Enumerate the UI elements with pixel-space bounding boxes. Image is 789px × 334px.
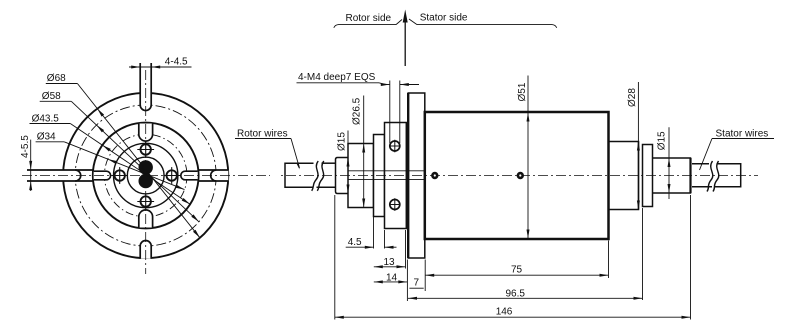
svg-text:Ø34: Ø34 (37, 132, 56, 143)
svg-text:Stator side: Stator side (420, 13, 468, 24)
rotor hub D26.5 (348, 144, 374, 208)
slot 5.5 right (211, 170, 229, 181)
stator shaft D15 (653, 158, 691, 193)
svg-text:7: 7 (414, 278, 420, 289)
centerline vertical (left view) (145, 70, 147, 274)
extension lines bottom (373, 209, 375, 249)
svg-text:Rotor side: Rotor side (346, 13, 392, 24)
svg-text:4-5.5: 4-5.5 (20, 135, 31, 158)
svg-text:Ø58: Ø58 (42, 91, 61, 102)
M4 hole extension lines (389, 81, 391, 144)
arrow up between sides (404, 20, 406, 66)
plate notch top (139, 124, 153, 142)
svg-text:Ø68: Ø68 (47, 73, 66, 84)
svg-text:4-M4 deep7 EQS: 4-M4 deep7 EQS (298, 72, 376, 83)
flange D68 side (408, 93, 425, 258)
svg-text:75: 75 (511, 265, 523, 276)
screw top (141, 144, 151, 154)
stator wire (692, 163, 709, 165)
slot 4.5 top (open at flange edge) (140, 63, 151, 111)
svg-text:Ø26.5: Ø26.5 (352, 97, 363, 125)
wire break left (312, 161, 319, 191)
circle hub OD (26.5) (114, 143, 178, 207)
plate notch bottom (139, 210, 153, 228)
bolt circle (58) dash-dot (75, 105, 216, 246)
svg-text:Ø15: Ø15 (657, 131, 668, 150)
collar (643, 145, 653, 207)
wire break right (707, 161, 713, 192)
disc D34 (374, 135, 385, 217)
M4 screw holes side view (390, 141, 400, 151)
dim 4-4.5 (top slot width) (129, 66, 192, 68)
right view: side section (235, 10, 774, 320)
plate notch right (181, 171, 198, 180)
svg-text:4.5: 4.5 (348, 237, 362, 248)
bore/wire channel lines (348, 170, 425, 172)
body D51 (425, 112, 609, 239)
wire segment to shaft (322, 162, 336, 164)
plate D43.5 (385, 123, 407, 229)
circle plate OD (43.5) (93, 123, 199, 229)
circle 34 (104, 134, 187, 217)
slot 4.5 bottom (140, 241, 151, 259)
left view: flange front view (20, 57, 270, 275)
slot 5.5 left (open at flange edge) (27, 170, 81, 181)
svg-text:Stator wires: Stator wires (716, 128, 769, 139)
svg-text:Ø51: Ø51 (517, 82, 528, 101)
dim 4-5.5 (left slot width) (30, 140, 32, 191)
svg-text:Ø15: Ø15 (337, 132, 348, 151)
svg-text:96.5: 96.5 (506, 288, 526, 299)
stator step D28 (609, 142, 639, 210)
svg-text:146: 146 (496, 306, 513, 317)
svg-text:Ø28: Ø28 (627, 88, 638, 107)
node circle 2 (518, 173, 523, 178)
centerline (right view) (281, 175, 758, 177)
wire dots center (139, 160, 153, 174)
circle flange OD (68) (63, 93, 228, 258)
rotor shaft D15 (336, 158, 349, 194)
svg-text:Rotor wires: Rotor wires (237, 128, 288, 139)
svg-text:4-4.5: 4-4.5 (165, 57, 188, 68)
svg-text:13: 13 (384, 257, 396, 268)
svg-text:Ø43.5: Ø43.5 (32, 113, 60, 124)
node circle 1 (432, 173, 437, 178)
circle shaft (15) (127, 157, 164, 194)
centerline horizontal (left view) (22, 175, 270, 177)
rotor wire left (285, 163, 314, 187)
plate notch left (94, 171, 111, 180)
